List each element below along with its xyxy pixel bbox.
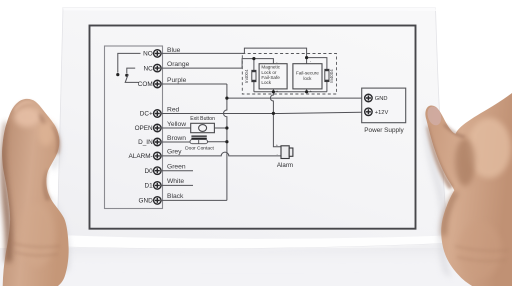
svg-text:OPEN: OPEN [135, 125, 153, 132]
node blue fail-secure junction [305, 56, 308, 59]
svg-text:Exit Button: Exit Button [190, 116, 215, 122]
svg-text:D_IN: D_IN [138, 139, 153, 146]
wire grey ALARM- to alarm with hop over rail [161, 152, 281, 156]
alarm polarity marks [276, 143, 279, 157]
svg-text:DC+: DC+ [140, 111, 153, 118]
terminal screw DC+ [154, 110, 162, 118]
node orange diode junction [252, 57, 255, 60]
power supply PS1 box [362, 88, 406, 123]
svg-text:Black: Black [167, 193, 184, 200]
node exit button junction [225, 126, 228, 129]
svg-text:Lock: Lock [261, 80, 271, 85]
wire left diode branch [253, 59, 255, 92]
terminal labels [129, 51, 154, 205]
node fail-secure bottom [305, 90, 308, 93]
svg-text:ALARM-: ALARM- [129, 153, 153, 160]
label fail-secure lock [296, 71, 319, 81]
wire ground rail vertical with hop over red [224, 84, 227, 200]
node NO contact [116, 73, 119, 76]
svg-text:Orange: Orange [167, 61, 190, 68]
terminal screw COM [154, 80, 162, 88]
svg-text:Red: Red [167, 106, 180, 113]
wire black GND [161, 199, 227, 201]
svg-text:Brown: Brown [167, 135, 186, 142]
svg-text:GND: GND [375, 96, 388, 102]
wire door contact to ground rail [208, 141, 227, 143]
terminal screw ALARM- [154, 152, 162, 160]
svg-text:NC: NC [143, 65, 153, 72]
svg-text:In4004: In4004 [244, 69, 249, 83]
svg-text:Alarm: Alarm [277, 162, 293, 169]
terminal screw D0 [154, 167, 162, 175]
diode D2 In4004 body [325, 69, 329, 81]
svg-text:Purple: Purple [167, 77, 187, 84]
wire green D0 [161, 170, 193, 172]
wire lock common tap to +12V and alarm, hop over ground line [270, 92, 281, 147]
diode D1 In4004 body [252, 70, 256, 81]
wire white D1 [161, 184, 193, 186]
svg-text:GND: GND [138, 198, 153, 205]
label magnetic lock [261, 65, 280, 85]
node magnetic lock bottom [272, 90, 275, 93]
svg-text:In4004: In4004 [329, 69, 334, 83]
dashed lock enclosure [242, 54, 336, 95]
wire brown D_IN to door contact [161, 141, 190, 143]
relay contact K1 NO branch [118, 53, 141, 72]
wire purple COM to ground rail [161, 83, 227, 85]
wire top node to right diode [307, 58, 327, 70]
wire ground to power supply GND [227, 97, 362, 99]
access controller outline U1 [105, 46, 163, 209]
svg-text:COM: COM [138, 81, 153, 88]
alarm sounder LS1 [281, 146, 293, 159]
fail-secure lock box [293, 64, 322, 89]
svg-text:Green: Green [167, 164, 186, 171]
svg-text:D1: D1 [145, 183, 154, 190]
wire blue NO to fail-secure lock [161, 48, 307, 64]
node red lock tap [272, 112, 275, 115]
terminal screw D1 [154, 182, 162, 190]
node door contact junction [225, 140, 228, 143]
svg-text:lock: lock [303, 76, 312, 81]
terminal screw OPEN [154, 124, 162, 132]
terminal screw PSU +12V [365, 108, 373, 116]
wire colour labels [167, 47, 190, 200]
terminal screw NC [154, 64, 162, 72]
relay contact K1 NC branch [127, 68, 135, 73]
svg-text:+12V: +12V [375, 110, 389, 116]
door contact S2 reed switch [190, 140, 208, 144]
wire exit button to ground rail [214, 127, 227, 129]
svg-text:D0: D0 [145, 168, 154, 175]
svg-text:Blue: Blue [167, 47, 181, 54]
svg-text:Yellow: Yellow [167, 121, 186, 128]
svg-text:Grey: Grey [167, 149, 182, 156]
svg-text:Door Contact: Door Contact [185, 146, 214, 152]
relay contact K1 COM lever [125, 74, 139, 82]
door contact S2 magnet bars [191, 136, 206, 140]
svg-text:Fail-secure: Fail-secure [296, 71, 319, 76]
terminal screw PSU GND [365, 94, 373, 102]
polarity marks locks [276, 58, 313, 94]
wire yellow OPEN to exit button [161, 127, 191, 129]
wire red DC+ to power supply +12V [161, 112, 362, 113]
svg-text:Power Supply: Power Supply [364, 127, 404, 134]
svg-text:NO: NO [143, 51, 153, 58]
magnetic lock box [259, 64, 287, 89]
terminal screw GND [154, 197, 162, 205]
terminal screw D_IN [154, 138, 162, 146]
node NC contact [125, 74, 128, 77]
terminal screw NO [154, 50, 162, 58]
wire orange NC to magnetic lock [161, 59, 274, 69]
svg-text:White: White [167, 178, 184, 185]
node purple ground junction [225, 97, 228, 100]
wire lock bottom rail [254, 82, 327, 92]
exit button S1 [191, 123, 215, 132]
